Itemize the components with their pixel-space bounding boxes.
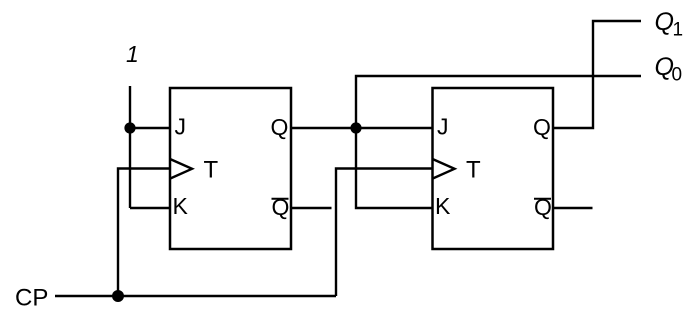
svg-text:CP: CP (15, 285, 48, 312)
node: junction dot on CP rail (112, 290, 124, 302)
clock edge triangle U2 (433, 159, 455, 179)
svg-text:1: 1 (126, 41, 139, 67)
wire: node down to K2 input (356, 128, 433, 208)
wire: CP to U1 clock (118, 169, 170, 297)
wire: Q1 output to J2 input (291, 127, 433, 129)
clock edge triangle U1 (170, 159, 192, 179)
svg-text:J: J (175, 114, 187, 140)
wire: K1 input (130, 207, 170, 209)
svg-text:Q: Q (655, 8, 674, 36)
svg-text:1: 1 (673, 20, 684, 41)
svg-text:Q: Q (533, 114, 551, 140)
node: junction dot at J1 input (124, 122, 135, 133)
flip-flop U2 (T flip-flop body) (433, 88, 554, 249)
wire: Q-bar U2 stub (553, 207, 593, 209)
overline for Q-bar U2 (534, 198, 551, 200)
svg-text:K: K (173, 193, 189, 219)
wire: constant-1 vertical into J1/K1 (129, 86, 131, 208)
overline for Q-bar U1 (272, 198, 289, 200)
svg-text:T: T (204, 157, 219, 184)
wire: node to Q0 terminal (356, 76, 641, 128)
svg-text:0: 0 (672, 65, 683, 86)
svg-text:T: T (466, 157, 481, 184)
svg-text:J: J (437, 114, 449, 140)
wire: CP riser to U2 clock (336, 169, 433, 297)
node: junction dot at Q1/J2 (350, 122, 361, 133)
svg-text:K: K (435, 193, 451, 219)
wire: CP horizontal rail (55, 295, 336, 297)
svg-text:Q: Q (271, 114, 289, 140)
wire: Q2 output to Q1 terminal (553, 21, 641, 128)
wire: J1 input (130, 127, 170, 129)
flip-flop U1 (T flip-flop body) (170, 88, 291, 249)
wire: Q-bar U1 stub (291, 207, 332, 209)
